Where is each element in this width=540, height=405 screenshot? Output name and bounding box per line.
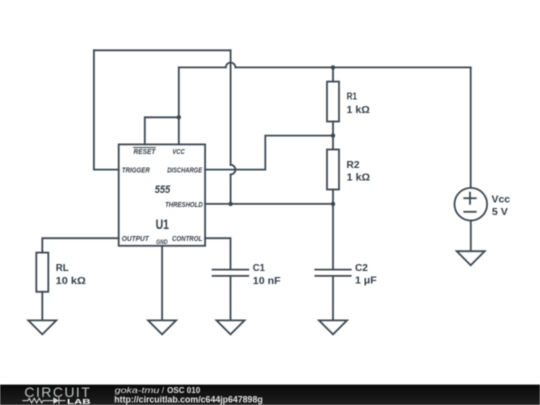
svg-text:RL: RL [56,263,69,274]
svg-text:OUTPUT: OUTPUT [122,236,150,243]
svg-text:1 kΩ: 1 kΩ [347,173,370,184]
svg-text:CONTROL: CONTROL [172,236,202,243]
svg-text:GND: GND [156,239,168,246]
svg-text:RESET: RESET [134,149,157,156]
svg-text:VCC: VCC [172,149,185,156]
svg-text:DISCHARGE: DISCHARGE [167,167,202,174]
svg-text:R1: R1 [347,92,358,103]
svg-text:10 kΩ: 10 kΩ [56,276,86,287]
svg-text:5 V: 5 V [492,207,508,218]
svg-text:R2: R2 [347,160,360,171]
svg-text:goka-tmu: goka-tmu [115,385,160,395]
svg-text:TRIGGER: TRIGGER [122,167,150,174]
svg-text:U1: U1 [156,217,170,232]
svg-text:http://circuitlab.com/c644jp64: http://circuitlab.com/c644jp647898g [114,395,262,405]
svg-text:C2: C2 [355,263,368,274]
svg-text:OSC 010: OSC 010 [167,385,200,395]
svg-text:555: 555 [155,184,171,196]
svg-text:Vcc: Vcc [492,194,511,205]
svg-text:10 nF: 10 nF [253,276,281,287]
svg-text:1 kΩ: 1 kΩ [347,105,370,116]
svg-text:1 μF: 1 μF [355,275,377,286]
svg-text:LAB: LAB [67,397,91,405]
svg-text:C1: C1 [253,263,265,274]
svg-text:THRESHOLD: THRESHOLD [165,202,203,209]
